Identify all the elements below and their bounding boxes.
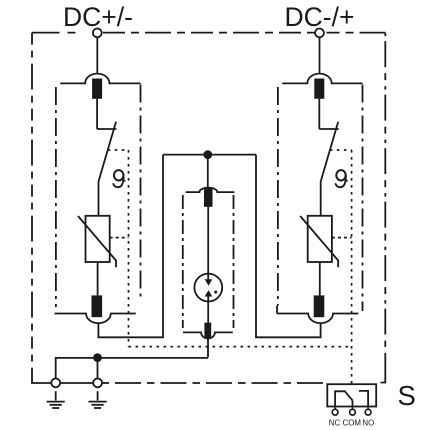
module box 2 dashed sides: [277, 87, 279, 306]
thermal sense dotted line 1: [108, 150, 129, 347]
gdt electrode top: [204, 187, 213, 207]
wire varistor to bottom fuse: [97, 262, 99, 295]
svg-text:DC-/+: DC-/+: [285, 2, 355, 32]
plug contact bottom 2: [277, 314, 358, 324]
wire module2 box stub: [276, 306, 278, 314]
svg-text:DC+/-: DC+/-: [63, 2, 133, 32]
thermal switch 1 stub: [97, 128, 116, 130]
plug contact bottom 3: [183, 332, 233, 338]
wire gdt to bottom electrode: [207, 296, 209, 322]
wire terminal2 to contact: [319, 37, 321, 74]
gas discharge tube indicator circle: [194, 274, 222, 302]
gdt arrow down: [205, 279, 213, 286]
svg-text:COM: COM: [343, 419, 361, 428]
wire branch2 bottom to center node: [256, 155, 321, 338]
terminal 1 DC+: [93, 29, 102, 38]
wire electrode to gdt: [207, 207, 209, 280]
wire branch1 bottom to center node: [98, 155, 163, 338]
svg-text:NO: NO: [362, 419, 374, 428]
varistor RV1 diagonal: [78, 216, 116, 267]
earth terminal 1: [51, 379, 60, 388]
module box 3 dashed sides: [182, 195, 184, 328]
disconnector fuse F1: [92, 79, 102, 99]
wire node to earth terminal: [97, 358, 99, 379]
enclosure border bottom edge: [102, 382, 328, 384]
wire terminal1 to contact: [96, 37, 98, 74]
wire fuse to switch: [96, 99, 98, 129]
enclosure border right edge: [384, 33, 386, 347]
thermal switch 2 stub: [319, 128, 338, 130]
remote contact box S: [327, 384, 376, 406]
plug contact top 3: [186, 188, 235, 192]
relay pin circle NO: [365, 409, 371, 415]
theta label 2: [336, 170, 348, 187]
ground symbol 1: [47, 391, 65, 408]
thermal switch 2 blade: [321, 122, 339, 182]
varistor sense dashed stub 2: [332, 237, 352, 239]
varistor RV2 body: [308, 216, 332, 262]
terminal 2 DC-: [315, 29, 324, 38]
earth terminal 2: [93, 379, 102, 388]
theta label 1: [113, 170, 125, 187]
relay blade: [344, 391, 352, 401]
relay pin circle NC: [332, 409, 338, 415]
svg-text:NC: NC: [329, 419, 341, 428]
relay pin stems: [335, 407, 368, 410]
disconnector fuse bottom 1: [92, 295, 103, 317]
enclosure border bottom-right hook: [381, 353, 386, 383]
relay NC contact: [335, 391, 344, 406]
varistor RV2 diagonal: [300, 216, 338, 267]
wire center link rail: [163, 154, 256, 156]
relay COM pin: [352, 400, 354, 406]
disconnector fuse bottom 2: [314, 295, 325, 317]
wire gdt to ground rail: [207, 338, 209, 357]
wire node to gdt contact: [207, 155, 209, 188]
plug contact top 2: [282, 74, 362, 84]
plug contact bottom 1: [55, 314, 136, 324]
enclosure border top edge: [32, 32, 93, 34]
wire varistor to bottom fuse 2: [319, 262, 321, 295]
thermal switch 1 blade: [99, 122, 117, 182]
svg-text:S: S: [398, 380, 416, 411]
thermal sense dotted line 2: [330, 150, 352, 384]
junction node ground: [93, 353, 102, 362]
disconnector fuse F2: [314, 79, 324, 99]
wire switch to varistor: [98, 182, 100, 216]
module box 1 dashed sides: [55, 87, 57, 307]
ground symbol 2: [89, 391, 107, 408]
gdt gas dot: [214, 291, 217, 294]
wire switch to varistor 2: [320, 182, 322, 216]
plug contact top 1: [60, 74, 140, 84]
varistor RV1 body: [86, 216, 110, 262]
wire fuse to switch 2: [318, 99, 320, 129]
gdt arrow up: [205, 290, 213, 296]
gdt electrode bottom: [204, 323, 211, 338]
varistor sense dashed stub 1: [110, 237, 129, 239]
relay pin circle COM: [350, 409, 356, 415]
thermal sense dotted rail: [129, 346, 352, 348]
relay NO contact: [359, 391, 368, 407]
enclosure border bottom-left corner: [32, 374, 99, 383]
wire ground rail: [56, 358, 208, 379]
enclosure border left edge: [31, 33, 33, 374]
junction node center: [203, 150, 212, 159]
